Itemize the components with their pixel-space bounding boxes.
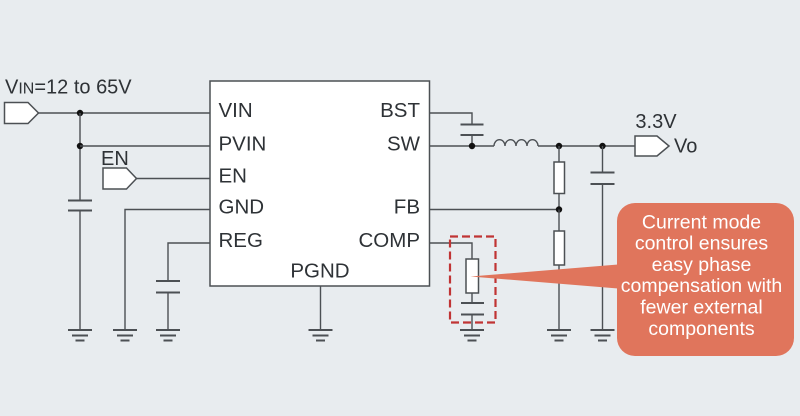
wire GND — [125, 210, 210, 331]
node input rail top — [77, 110, 83, 116]
output port Vo — [635, 136, 669, 156]
wire PGND — [320, 286, 322, 330]
resistor R2 divider bottom — [554, 210, 565, 331]
svg-text:VIN=12 to 65V: VIN=12 to 65V — [5, 77, 132, 99]
ground output cap — [591, 330, 615, 341]
wire PVIN — [80, 145, 210, 147]
svg-text:control ensures: control ensures — [635, 233, 769, 255]
svg-text:COMP: COMP — [359, 229, 421, 252]
callout balloon — [471, 203, 795, 356]
wire VIN port to pin — [39, 112, 211, 114]
ground REG — [156, 330, 180, 341]
ground PGND — [309, 330, 333, 341]
capacitor comp C5 — [461, 303, 484, 330]
svg-text:EN: EN — [101, 148, 129, 170]
ground input rail — [68, 330, 92, 341]
inductor L1 — [494, 140, 538, 146]
svg-text:SW: SW — [387, 133, 421, 156]
wire BST — [430, 113, 473, 125]
svg-text:GND: GND — [219, 196, 265, 219]
node PVIN junction — [77, 143, 83, 149]
ground divider — [547, 330, 571, 341]
wire SW output — [538, 145, 635, 147]
svg-text:compensation with: compensation with — [621, 275, 783, 297]
wire input rail vertical upper — [79, 113, 81, 200]
svg-text:3.3V: 3.3V — [635, 111, 677, 133]
capacitor bootstrap C3 — [461, 125, 484, 147]
svg-text:PGND: PGND — [290, 259, 349, 282]
capacitor REG C2 — [156, 281, 180, 330]
IC U1 body — [210, 81, 430, 286]
svg-text:fewer external: fewer external — [640, 297, 762, 319]
svg-text:Current mode: Current mode — [642, 211, 761, 233]
input port EN — [103, 168, 137, 189]
ground GND pin — [113, 330, 137, 341]
svg-text:REG: REG — [219, 229, 263, 252]
highlight box dashed — [450, 237, 496, 323]
wire REG — [168, 243, 210, 281]
node FB junction — [556, 206, 562, 212]
svg-text:EN: EN — [219, 165, 247, 188]
wire COMP — [430, 243, 473, 259]
resistor R1 divider top — [554, 146, 565, 210]
svg-text:VIN: VIN — [219, 99, 253, 122]
node SW bootstrap junction — [469, 143, 475, 149]
node output cap — [599, 143, 605, 149]
capacitor input C1 — [68, 201, 92, 331]
wire FB — [430, 209, 560, 211]
wire EN — [137, 178, 211, 180]
input port VIN — [5, 103, 39, 124]
svg-text:components: components — [648, 318, 754, 340]
ground comp — [460, 330, 484, 341]
svg-text:Vo: Vo — [674, 135, 697, 157]
svg-text:BST: BST — [380, 99, 420, 122]
svg-text:easy phase: easy phase — [652, 254, 752, 276]
resistor comp R3 — [466, 259, 479, 303]
svg-text:PVIN: PVIN — [219, 133, 267, 156]
svg-text:FB: FB — [394, 196, 420, 219]
node divider top — [556, 143, 562, 149]
capacitor output C4 — [591, 146, 615, 330]
wire SW — [430, 145, 495, 147]
